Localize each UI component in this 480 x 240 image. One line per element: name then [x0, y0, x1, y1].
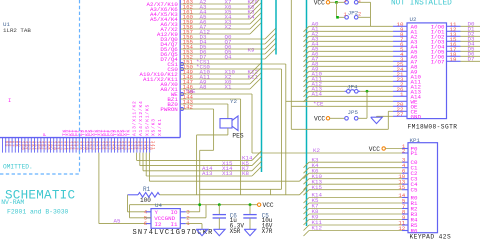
svg-text:PWRON: PWRON	[160, 106, 178, 113]
svg-text:NV-RAM: NV-RAM	[1, 199, 24, 206]
svg-text:C5: C5	[411, 187, 418, 194]
svg-text:A8: A8	[200, 83, 207, 90]
svg-text:100: 100	[140, 197, 151, 204]
svg-text:OMITTED.: OMITTED.	[3, 164, 33, 171]
svg-text:1: 1	[344, 0, 347, 4]
svg-text:2: 2	[358, 12, 361, 18]
svg-text:X4/K1: X4/K1	[157, 118, 163, 136]
svg-text:K15: K15	[312, 184, 323, 191]
svg-text:FM18W08-SGTR: FM18W08-SGTR	[408, 123, 458, 130]
svg-text:K4: K4	[248, 13, 255, 20]
svg-text:R1: R1	[143, 186, 151, 193]
svg-text:TK: TK	[125, 129, 131, 136]
svg-text:X2: X2	[225, 23, 232, 30]
svg-text:I/O7: I/O7	[431, 58, 445, 65]
svg-text:K8: K8	[242, 170, 249, 177]
svg-text:X1: X1	[225, 83, 232, 90]
svg-text:R6: R6	[411, 228, 418, 235]
svg-text:1: 1	[344, 12, 347, 18]
svg-text:X5/K3: X5/K3	[151, 118, 157, 136]
svg-text:P: P	[42, 132, 48, 136]
svg-text:X15/K1/K5: X15/K1/K5	[144, 104, 150, 136]
svg-text:F2801 and B-3030: F2801 and B-3030	[7, 208, 69, 215]
svg-text:K2: K2	[313, 147, 320, 154]
svg-text:VCC: VCC	[314, 115, 325, 122]
svg-text:PES: PES	[232, 132, 243, 139]
svg-text:VCC: VCC	[369, 146, 380, 153]
svg-text:U2: U2	[410, 16, 417, 23]
svg-text:A14/X12/K4: A14/X12/K4	[138, 100, 144, 136]
svg-text:KP1: KP1	[410, 137, 421, 144]
svg-text:X5R: X5R	[230, 228, 241, 235]
svg-text:Y2: Y2	[230, 98, 237, 105]
svg-text:A5: A5	[114, 218, 121, 225]
svg-text:P1: P1	[411, 150, 418, 157]
svg-text:A13: A13	[202, 170, 213, 177]
svg-text:VCC: VCC	[263, 202, 274, 209]
svg-text:141: 141	[150, 141, 155, 151]
svg-text:K9: K9	[248, 46, 255, 53]
svg-text:GND: GND	[411, 113, 422, 120]
svg-text:Q4: Q4	[225, 53, 232, 60]
svg-text:I2: I2	[155, 221, 162, 228]
svg-text:SN74LVC1G97DCKR: SN74LVC1G97DCKR	[133, 229, 214, 237]
svg-text:U4: U4	[155, 202, 162, 209]
svg-text:JP5: JP5	[348, 109, 359, 116]
svg-text:K12: K12	[312, 225, 323, 232]
svg-text:*WE: *WE	[185, 88, 196, 95]
svg-text:1LR2 TAB: 1LR2 TAB	[3, 27, 31, 34]
svg-text:I1: I1	[171, 221, 178, 228]
svg-text:A13/X11/K2: A13/X11/K2	[132, 100, 138, 136]
svg-text:VCC: VCC	[314, 0, 325, 6]
svg-text:NOT INSTALLED: NOT INSTALLED	[391, 0, 452, 8]
svg-text:X13: X13	[222, 170, 233, 177]
svg-text:D7: D7	[468, 56, 475, 63]
svg-text:X7R: X7R	[262, 228, 273, 235]
svg-text:I: I	[8, 98, 11, 104]
